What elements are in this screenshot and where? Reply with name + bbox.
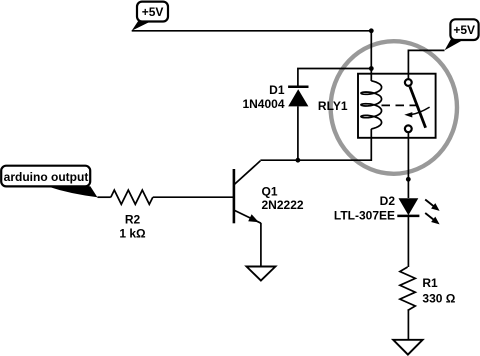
resistor R1 330ohm	[400, 267, 456, 311]
svg-text:arduino output: arduino output	[4, 170, 89, 184]
relay highlight circle	[331, 41, 457, 174]
relay RLY1	[318, 74, 436, 138]
svg-text:RLY1: RLY1	[318, 99, 348, 113]
wire diode anode to collector rail	[297, 106, 299, 160]
wire LED to R1	[407, 216, 409, 267]
wire vertical to relay coil	[370, 31, 372, 81]
svg-text:R2: R2	[125, 212, 141, 226]
wire input to R2	[97, 196, 110, 198]
wire top rail	[132, 30, 372, 32]
resistor R2 1kohm	[111, 190, 153, 240]
ground under R1	[393, 340, 422, 355]
wire collector rail to relay coil	[260, 129, 371, 160]
diode D1 1N4004	[242, 83, 308, 111]
svg-text:Q1: Q1	[262, 184, 278, 198]
svg-text:+5V: +5V	[453, 23, 475, 37]
svg-text:2N2222: 2N2222	[262, 198, 304, 212]
wire relay NO contact to LED	[407, 132, 409, 198]
svg-text:R1: R1	[422, 276, 438, 290]
wire R1 to ground	[407, 311, 409, 341]
node junction below relay	[406, 177, 411, 182]
power flag +5V right	[445, 19, 479, 50]
node junction diode-rail	[296, 158, 301, 163]
svg-text:1 kΩ: 1 kΩ	[119, 226, 146, 240]
wire R2 to base	[153, 196, 233, 198]
svg-text:+5V: +5V	[142, 5, 164, 19]
node junction top rail corner	[369, 28, 374, 33]
svg-text:1N4004: 1N4004	[242, 97, 284, 111]
input flag arduino output	[1, 166, 97, 198]
wire +5V to relay common	[408, 50, 444, 79]
LED D2 LTL-307EE	[334, 194, 440, 224]
ground under Q1	[247, 267, 276, 281]
svg-text:D1: D1	[269, 83, 285, 97]
svg-text:330 Ω: 330 Ω	[422, 291, 455, 305]
svg-text:D2: D2	[380, 194, 396, 208]
wire branch to diode D1	[298, 69, 371, 87]
wire emitter to ground	[260, 223, 262, 267]
svg-text:LTL-307EE: LTL-307EE	[334, 209, 395, 223]
power flag +5V left	[132, 2, 168, 31]
transistor Q1 2N2222	[234, 161, 304, 224]
node junction diode branch	[369, 66, 374, 71]
